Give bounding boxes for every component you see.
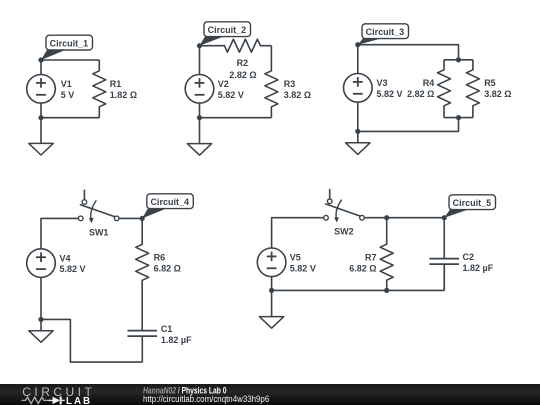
callout Circuit_1	[41, 35, 93, 60]
node circuit 2 top	[197, 43, 202, 48]
callout Circuit_3	[358, 24, 409, 45]
capacitor C1	[128, 331, 158, 363]
CircuitLab logo resistor zigzag wire	[22, 397, 49, 403]
wire R2 left lead circuit 2	[200, 45, 214, 47]
svg-text:1.82 µF: 1.82 µF	[161, 335, 192, 345]
node circuit 4 switch-R6	[140, 216, 145, 221]
node circuit 5 C2 top	[442, 215, 447, 220]
ground circuit 5	[259, 290, 283, 328]
svg-text:1.82 Ω: 1.82 Ω	[110, 90, 137, 100]
capacitor C2	[429, 218, 459, 291]
svg-text:5 V: 5 V	[61, 90, 75, 100]
callout Circuit_4	[142, 194, 193, 219]
svg-text:LAB: LAB	[66, 396, 92, 405]
node circuit 5 R7 bottom	[384, 288, 389, 293]
svg-text:3.82 Ω: 3.82 Ω	[484, 89, 511, 99]
node circuit 1 bottom	[38, 115, 43, 120]
callout Circuit_5	[444, 195, 495, 218]
svg-text:V5: V5	[290, 253, 301, 263]
wire parallel bottom bar circuit 3	[444, 117, 473, 119]
svg-text:5.82 V: 5.82 V	[377, 89, 403, 99]
svg-text:V2: V2	[218, 79, 229, 89]
CircuitLab logo diode symbol	[49, 399, 53, 401]
resistor R4	[438, 60, 451, 118]
resistor R3 with top corner wire	[265, 46, 278, 118]
svg-text:SW1: SW1	[89, 227, 109, 237]
resistor R1	[93, 60, 106, 118]
svg-text:C1: C1	[161, 324, 173, 334]
wire switch right rail circuit 5	[364, 217, 444, 219]
footer title HannaN02 / Physics Lab 0	[143, 385, 227, 395]
node circuit 3 bottom left	[355, 129, 360, 134]
wire R6 to C1 circuit 4	[141, 295, 143, 331]
footer url	[143, 393, 269, 404]
node circuit 1 top	[38, 57, 43, 62]
svg-text:R6: R6	[154, 253, 166, 263]
wire switch left circuit 5	[272, 218, 324, 248]
ground circuit 1	[29, 118, 53, 155]
wire switch left circuit 4	[41, 218, 78, 248]
svg-text:5.82 V: 5.82 V	[290, 263, 316, 273]
svg-text:C2: C2	[463, 252, 475, 262]
svg-text:V1: V1	[61, 79, 72, 89]
svg-text:3.82 Ω: 3.82 Ω	[284, 90, 311, 100]
svg-text:Circuit_5: Circuit_5	[453, 198, 492, 208]
node circuit 3 top left	[355, 42, 360, 47]
svg-text:SW2: SW2	[334, 227, 354, 237]
svg-text:Circuit_3: Circuit_3	[366, 27, 405, 37]
wire top rail circuit 1	[41, 59, 99, 61]
ground circuit 4	[29, 319, 53, 342]
callout Circuit_2	[200, 22, 251, 46]
svg-text:Circuit_2: Circuit_2	[208, 25, 247, 35]
svg-text:R4: R4	[423, 78, 435, 88]
svg-text:R3: R3	[284, 79, 296, 89]
svg-text:5.82 V: 5.82 V	[218, 90, 244, 100]
wire parallel top bar circuit 3	[444, 59, 473, 61]
svg-text:2.82 Ω: 2.82 Ω	[407, 89, 434, 99]
ground circuit 3	[346, 131, 370, 154]
svg-text:R7: R7	[365, 253, 377, 263]
wire switch right to node circuit 4	[119, 217, 142, 219]
ground circuit 2	[187, 118, 211, 156]
svg-text:Circuit_1: Circuit_1	[50, 38, 89, 48]
svg-text:Circuit_4: Circuit_4	[150, 197, 189, 207]
svg-text:R5: R5	[484, 78, 496, 88]
svg-text:6.82 Ω: 6.82 Ω	[349, 263, 376, 273]
node circuit 3 parallel bottom junction	[456, 115, 461, 120]
wire bottom return circuit 4	[41, 319, 142, 362]
wire top rail circuit 3	[358, 45, 459, 60]
svg-text:6.82 Ω: 6.82 Ω	[154, 263, 181, 273]
node circuit 2 bottom	[197, 115, 202, 120]
svg-text:R1: R1	[110, 79, 122, 89]
node circuit 3 parallel top junction	[456, 57, 461, 62]
svg-text:http://circuitlab.com/cnqtn4w3: http://circuitlab.com/cnqtn4w33h9p6	[143, 393, 269, 404]
resistor R5	[466, 60, 479, 118]
svg-text:R2: R2	[237, 58, 249, 68]
switch SW2	[324, 189, 365, 223]
svg-text:2.82 Ω: 2.82 Ω	[229, 70, 256, 80]
voltage source V3	[344, 45, 373, 132]
svg-text:1.82 µF: 1.82 µF	[463, 263, 494, 273]
voltage source V2	[185, 46, 214, 118]
wire bottom rail circuit 1	[41, 117, 99, 119]
svg-text:V3: V3	[377, 78, 388, 88]
node circuit 4 ground	[38, 317, 43, 322]
svg-text:V4: V4	[60, 253, 71, 263]
wire bottom rail circuit 3	[358, 118, 459, 132]
resistor R7	[380, 218, 393, 291]
switch SW1	[78, 190, 119, 224]
voltage source V1	[27, 60, 56, 118]
wire bottom rail circuit 5	[272, 289, 445, 291]
node circuit 5 V5 bottom	[269, 288, 274, 293]
wire C2 bottom corner circuit 5	[443, 264, 445, 290]
resistor R6	[136, 218, 149, 295]
voltage source V5	[257, 248, 286, 290]
wire bottom rail circuit 2	[200, 117, 272, 119]
node circuit 5 switch-R7	[384, 215, 389, 220]
svg-text:5.82 V: 5.82 V	[60, 264, 86, 274]
resistor R2 horizontal	[214, 39, 272, 52]
voltage source V4	[27, 249, 56, 320]
